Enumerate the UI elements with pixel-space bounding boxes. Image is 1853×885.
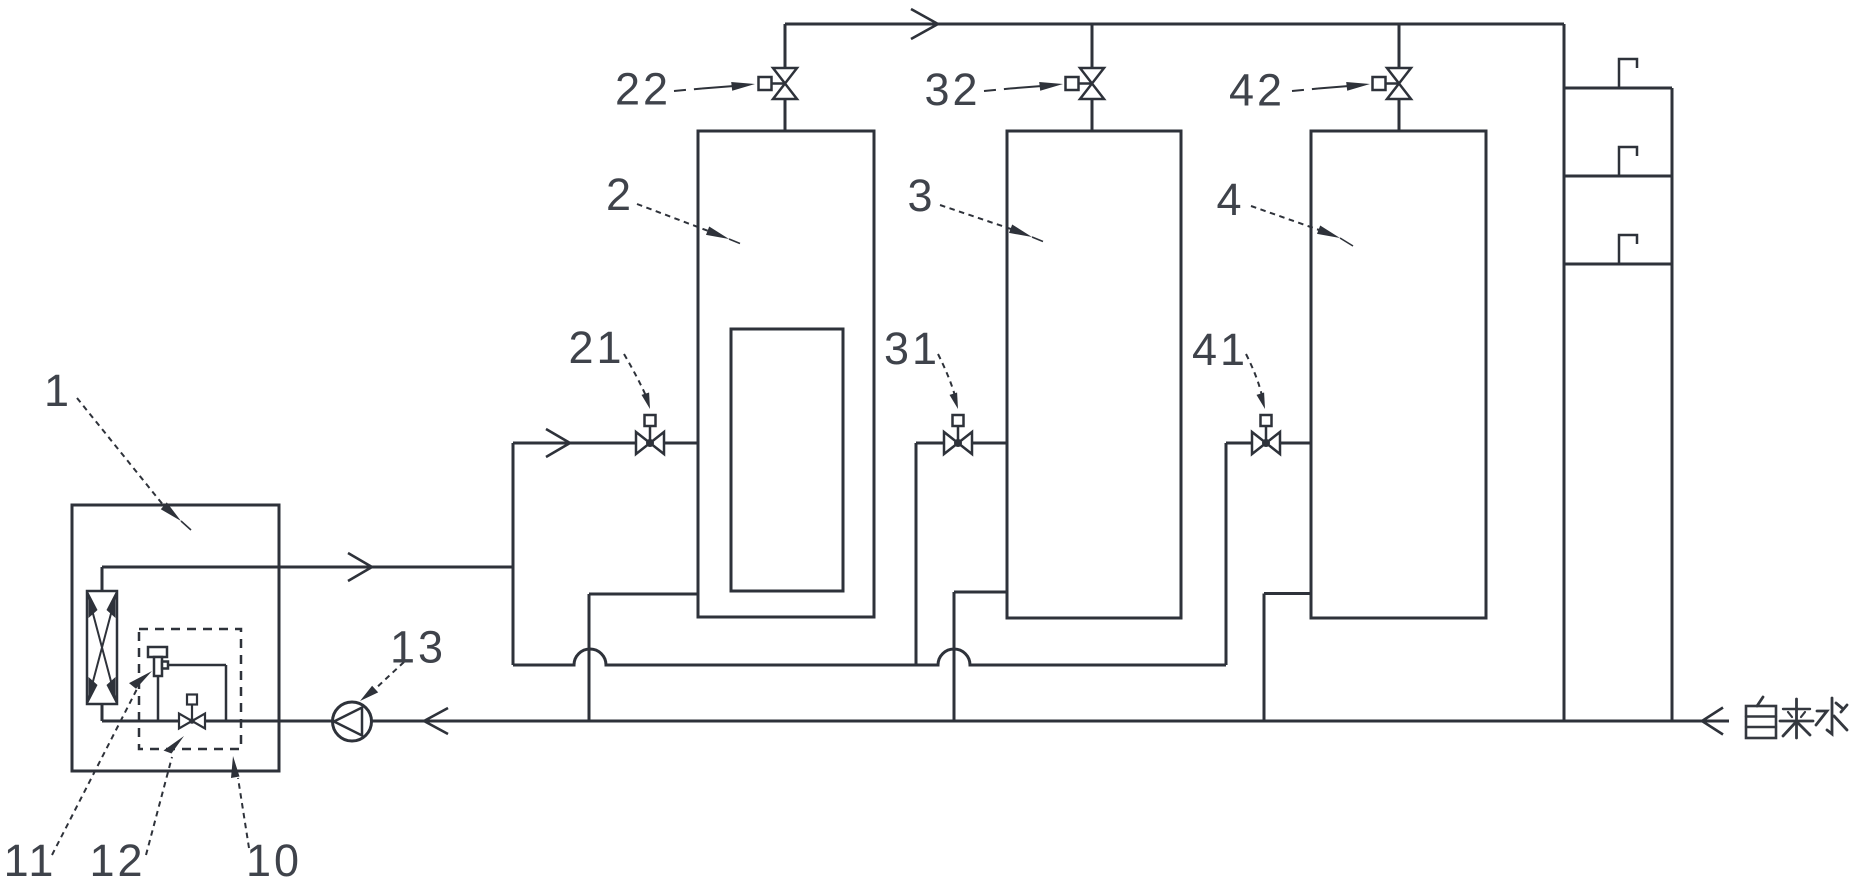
leader for label 31: [938, 354, 958, 409]
svg-text:41: 41: [1192, 324, 1248, 375]
wire tank3 top pipe upper: [1091, 24, 1094, 68]
tank 3: [1007, 131, 1181, 618]
svg-text:1: 1: [44, 365, 69, 416]
valve 21: [636, 415, 664, 454]
wire expansion valve drop: [157, 676, 160, 721]
valve 41: [1252, 415, 1280, 454]
wire tank4 top pipe upper: [1398, 24, 1401, 68]
wire feed manifold with hops: [513, 649, 1226, 665]
svg-text:11: 11: [4, 835, 57, 885]
valve 31: [944, 415, 972, 454]
wire tank2 top pipe lower: [784, 99, 787, 131]
leader for label 10: [231, 756, 249, 848]
svg-text:32: 32: [924, 64, 980, 115]
flow arrow on tank2 inlet: [546, 429, 570, 457]
wire tank3 top pipe lower: [1091, 99, 1094, 131]
wire tank3 inlet line: [916, 442, 1007, 445]
tank 4: [1311, 131, 1486, 618]
wire hot feed line from unit 1: [102, 566, 513, 569]
wire tank2 drain drop: [588, 594, 591, 721]
leader for label 4: [1251, 206, 1353, 246]
wire tank4 feed riser: [1225, 443, 1228, 665]
char lai: [1780, 699, 1813, 738]
flow arrow on top header: [911, 9, 938, 39]
wire tank2 drain stub: [589, 593, 698, 596]
valve 22: [759, 68, 798, 99]
svg-text:4: 4: [1216, 174, 1241, 225]
svg-text:10: 10: [246, 835, 302, 885]
wire tank4 inlet line: [1226, 442, 1311, 445]
svg-text:31: 31: [884, 323, 940, 374]
wire right main riser: [1563, 24, 1566, 721]
leader for label 3: [940, 205, 1043, 242]
svg-text:2: 2: [606, 169, 631, 220]
char shui: [1816, 698, 1847, 734]
flow arrow on hot feed: [348, 553, 372, 581]
tank 2: [698, 131, 874, 617]
svg-text:13: 13: [390, 622, 446, 673]
wire tank2 inlet line: [513, 442, 698, 445]
heat exchanger coil: [87, 591, 117, 704]
leader for label 42: [1292, 82, 1370, 91]
pump 13: [333, 702, 372, 741]
valve 42: [1373, 68, 1412, 99]
wire bypass loop top: [168, 664, 226, 667]
wire riser column divider 1: [1564, 175, 1672, 178]
faucet 2: [1619, 147, 1637, 176]
tap water label (hand drawn CJK): [1746, 697, 1847, 738]
expansion valve 11: [148, 647, 168, 676]
tap water inlet arrow: [1702, 708, 1723, 735]
heat pump unit 1 box: [72, 505, 279, 771]
svg-text:21: 21: [568, 322, 624, 373]
wire tank3 drain drop: [953, 592, 956, 721]
valve 12: [179, 695, 205, 729]
tank 2 inner tube: [731, 329, 843, 591]
flow arrow on return line: [424, 708, 448, 734]
svg-text:12: 12: [89, 835, 145, 885]
svg-text:42: 42: [1229, 65, 1285, 116]
wire riser column right wall: [1671, 88, 1674, 721]
wire return line: [102, 720, 1729, 723]
leader for label 12: [146, 736, 184, 855]
leader for label 32: [984, 82, 1063, 91]
dashed control box 10: [139, 629, 241, 749]
wire top header line: [785, 23, 1564, 26]
leader for label 22: [674, 82, 755, 91]
leader for label 11: [52, 671, 152, 855]
valve 32: [1066, 68, 1105, 99]
wire riser column top: [1564, 87, 1672, 90]
leader for label 2: [637, 204, 740, 244]
wire tank2 feed riser: [512, 443, 515, 665]
leader for label 41: [1246, 354, 1265, 409]
wire hx bottom connector: [101, 704, 104, 721]
leader for label 13: [360, 662, 404, 701]
char zi: [1746, 697, 1776, 738]
wire bypass loop right drop: [225, 665, 228, 721]
faucet 1: [1619, 59, 1637, 88]
wire riser column divider 2: [1564, 263, 1672, 266]
svg-text:3: 3: [907, 170, 932, 221]
wire hx top connector: [101, 567, 104, 591]
wire tank3 feed riser: [915, 443, 918, 665]
faucet 3: [1619, 235, 1637, 264]
wire tank4 drain drop: [1263, 594, 1266, 722]
wire tank4 drain stub: [1264, 592, 1311, 595]
wire tank2 top pipe upper: [784, 24, 787, 68]
leader for label 1: [77, 398, 191, 530]
wire tank4 top pipe lower: [1398, 99, 1401, 131]
wire tank3 drain stub: [954, 591, 1007, 594]
leader for label 21: [624, 354, 650, 409]
svg-text:22: 22: [615, 64, 671, 115]
